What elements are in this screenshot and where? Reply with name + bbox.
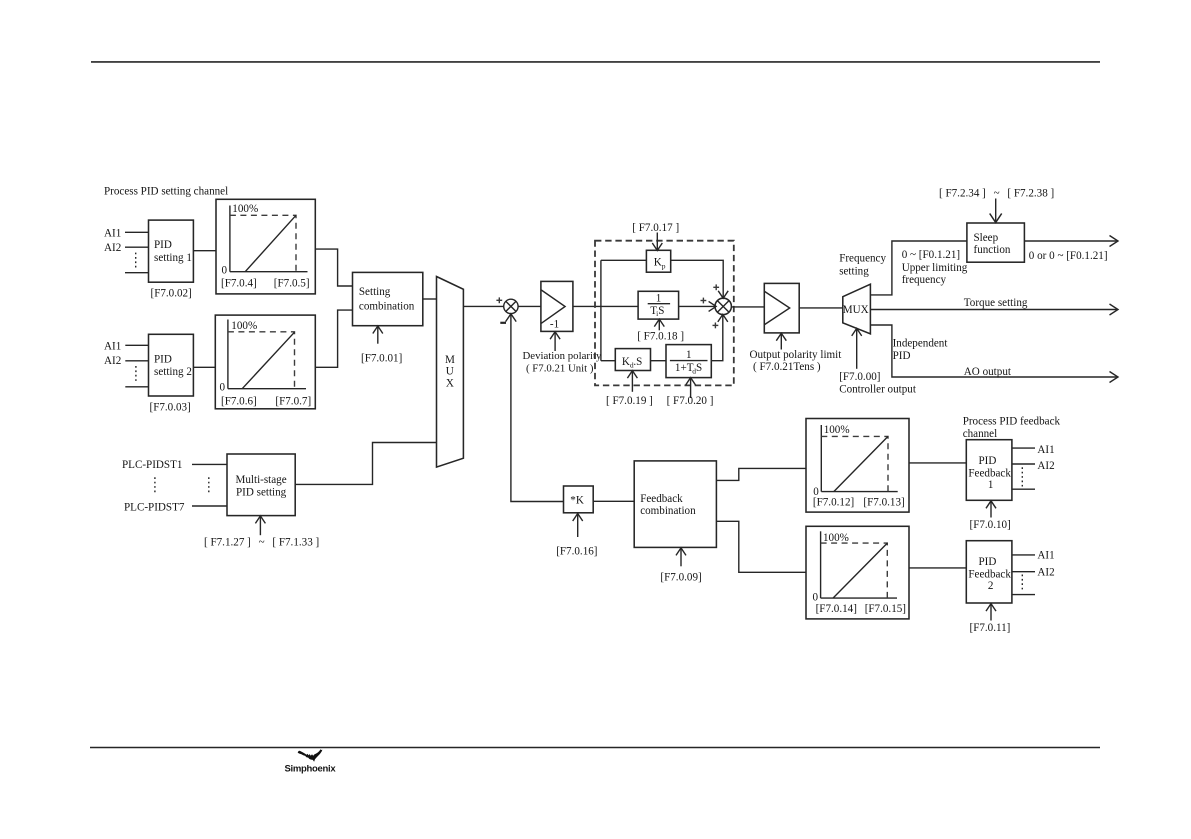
svg-text:[F7.0.6]: [F7.0.6]: [221, 395, 257, 407]
svg-text:U: U: [446, 365, 454, 377]
svg-text:0 ~ [F0.1.21]: 0 ~ [F0.1.21]: [902, 249, 960, 261]
svg-text:Simphoenix: Simphoenix: [285, 764, 337, 775]
wire sleep function output arrow: [1024, 240, 1116, 242]
svg-text:( F7.0.21Tens ): ( F7.0.21Tens ): [753, 361, 821, 373]
svg-text:MUX: MUX: [843, 304, 869, 316]
block integrator 1/TiS: [638, 291, 679, 319]
arrow F7.0.16 into *K: [577, 514, 579, 537]
svg-text:frequency: frequency: [902, 274, 947, 286]
svg-text:S: S: [658, 305, 664, 317]
svg-text:100%: 100%: [824, 424, 850, 436]
block Setting combination: [353, 272, 423, 325]
svg-text:[F7.0.15]: [F7.0.15]: [865, 603, 906, 615]
svg-text:[F7.0.13]: [F7.0.13]: [863, 497, 904, 509]
svg-text:( F7.0.21 Unit ): ( F7.0.21 Unit ): [526, 363, 594, 375]
svg-text:Output polarity limit: Output polarity limit: [750, 349, 843, 361]
wire KdS to TdS: [651, 360, 667, 362]
wire bottom from PID feedback 2: [1012, 594, 1035, 596]
wire setting combination to MUX: [423, 298, 437, 300]
plus sign sum2 top: [713, 286, 719, 288]
svg-text:AI1: AI1: [1037, 550, 1054, 562]
block curve box 3: [806, 419, 909, 513]
svg-text:[F7.0.03]: [F7.0.03]: [150, 402, 191, 414]
svg-text:AI1: AI1: [104, 227, 121, 239]
wire PID setting 2 to curve 2: [193, 366, 215, 368]
block Kp: [646, 250, 670, 272]
block PID setting 1: [149, 220, 194, 282]
svg-text:Upper limiting: Upper limiting: [902, 262, 968, 274]
wire PLC-PIDST1 to multistage: [192, 463, 227, 465]
curve2 x axis: [228, 388, 306, 390]
wire branch to KdS: [601, 360, 615, 362]
summing junction sum1: [504, 299, 518, 313]
dotted ellipsis inputs (setting 2): [135, 366, 137, 382]
mux MUX1: [437, 277, 464, 468]
svg-text:PID: PID: [893, 350, 911, 362]
curve4 x axis: [821, 597, 897, 599]
svg-text:*K: *K: [570, 494, 584, 506]
wire output polarity to MUX2: [799, 307, 843, 309]
wire curve1 to setting combination: [315, 249, 352, 286]
dashed PID regulator box: [595, 241, 734, 386]
svg-text:Controller output: Controller output: [839, 383, 917, 395]
curve4 y axis: [820, 531, 822, 598]
curve2 dashed limit lines: [228, 332, 295, 389]
block curve box 1: [216, 199, 315, 294]
svg-text:2: 2: [988, 580, 994, 592]
wire AI2 from PID feedback 1: [1012, 463, 1035, 465]
arrow F7.0.18 into integrator: [658, 320, 660, 330]
svg-text:channel: channel: [963, 428, 998, 440]
svg-text:setting 1: setting 1: [154, 252, 192, 264]
arrow F7.0.21 tens into output polarity: [780, 334, 782, 350]
svg-text:[ F7.0.17 ]: [ F7.0.17 ]: [632, 222, 679, 234]
curve2 y axis: [227, 320, 229, 389]
curve1 x axis: [230, 271, 308, 273]
wire Kp to sum2 top: [671, 260, 724, 297]
block deviation polarity (-1): [541, 281, 573, 331]
svg-text:[ F7.0.20 ]: [ F7.0.20 ]: [667, 395, 714, 407]
curve4 diagonal: [833, 543, 887, 598]
block output polarity limit: [764, 283, 799, 333]
svg-text:[ F7.2.34 ] ~ [ F7.2.38 ]: [ F7.2.34 ] ~ [ F7.2.38 ]: [939, 187, 1054, 199]
wire bottom input to PID setting 1: [125, 272, 149, 274]
curve1 diagonal: [245, 215, 296, 271]
arrow F7.0.20 into filter: [690, 379, 692, 398]
svg-text:Independent: Independent: [893, 338, 949, 350]
branch vertical wire: [600, 260, 602, 360]
svg-text:[F7.0.16]: [F7.0.16]: [556, 546, 597, 558]
svg-text:PID: PID: [154, 239, 172, 251]
svg-text:Deviation polarity: Deviation polarity: [523, 350, 602, 362]
block filter 1/(1+TdS): [666, 345, 711, 378]
block Multi-stage PID setting: [227, 454, 295, 516]
mux MUX2: [843, 284, 871, 334]
svg-text:[F7.0.09]: [F7.0.09]: [660, 571, 701, 583]
plus sign sum2 left: [701, 300, 707, 302]
curve3 x axis: [821, 491, 897, 493]
svg-text:.S: .S: [633, 356, 642, 368]
wire AI1 from PID feedback 2: [1012, 554, 1035, 556]
wire AI1 to PID setting 1: [125, 231, 149, 233]
block curve box 4: [806, 526, 909, 619]
svg-text:PLC-PIDST7: PLC-PIDST7: [124, 501, 185, 513]
wire deviation polarity to TiS: [573, 305, 638, 307]
dotted ellipsis inputs (setting 1): [135, 253, 137, 270]
wire curve2 to setting combination: [315, 310, 352, 367]
svg-text:1+T: 1+T: [675, 362, 694, 374]
svg-text:PID: PID: [154, 353, 172, 365]
wire AI1 from PID feedback 1: [1012, 447, 1035, 449]
wire PLC-PIDST7 to multistage: [192, 505, 227, 507]
wire bottom input to PID setting 2: [125, 386, 148, 388]
svg-text:Feedback: Feedback: [968, 468, 1011, 480]
curve4 dashed limit lines: [821, 543, 888, 598]
svg-text:[ F7.1.27 ] ~ [ F7.1.33 ]: [ F7.1.27 ] ~ [ F7.1.33 ]: [204, 536, 319, 548]
wire sum2 to output polarity: [731, 306, 764, 308]
wire AI2 from PID feedback 2: [1012, 571, 1035, 573]
svg-text:[F7.0.5]: [F7.0.5]: [274, 277, 310, 289]
block PID feedback 1: [966, 440, 1012, 501]
svg-text:Process PID feedback: Process PID feedback: [963, 415, 1061, 427]
svg-text:[F7.0.00]: [F7.0.00]: [839, 371, 880, 383]
svg-text:PID setting: PID setting: [236, 486, 287, 498]
block curve box 2: [215, 315, 315, 409]
curve3 y axis: [820, 425, 822, 492]
arrow F7.0.01 into setting combination: [377, 327, 379, 344]
svg-text:0: 0: [220, 382, 226, 394]
svg-text:[F7.0.7]: [F7.0.7]: [275, 395, 311, 407]
svg-text:setting 2: setting 2: [154, 366, 192, 378]
svg-text:0 or 0 ~ [F0.1.21]: 0 or 0 ~ [F0.1.21]: [1029, 250, 1108, 262]
svg-text:0: 0: [222, 265, 228, 277]
curve1 y axis: [229, 206, 231, 272]
svg-text:Torque setting: Torque setting: [964, 297, 1028, 309]
svg-text:S: S: [696, 362, 702, 374]
wire AI1 to PID setting 2: [125, 344, 148, 346]
curve3 dashed limit lines: [821, 436, 888, 491]
arrow F7.0.10 into PID feedback 1: [990, 501, 992, 517]
wire branch to Kp: [601, 259, 647, 261]
svg-text:PLC-PIDST1: PLC-PIDST1: [122, 459, 182, 471]
curve2 diagonal: [242, 332, 294, 389]
wire AI2 to PID setting 1: [125, 246, 149, 248]
block sleep function: [967, 223, 1025, 262]
arrow F7.0.21 unit into deviation polarity: [554, 332, 556, 351]
svg-text:AO output: AO output: [964, 366, 1012, 378]
arrow F7.0.00 into MUX2: [856, 330, 858, 369]
svg-text:Setting: Setting: [359, 286, 391, 298]
svg-text:[F7.0.10]: [F7.0.10]: [970, 519, 1011, 531]
svg-text:combination: combination: [640, 505, 696, 517]
svg-text:-1: -1: [550, 318, 559, 330]
arrow F7.0.17 into Kp: [656, 233, 658, 250]
svg-text:Feedback: Feedback: [640, 493, 683, 505]
svg-text:function: function: [974, 244, 1011, 256]
wire MUX2 to sleep function: [870, 241, 967, 295]
block PID setting 2: [149, 334, 194, 396]
svg-text:1: 1: [686, 349, 692, 361]
svg-text:Multi-stage: Multi-stage: [236, 474, 287, 486]
block feedback combination: [634, 461, 716, 548]
svg-text:PID: PID: [979, 455, 997, 467]
svg-text:combination: combination: [359, 301, 415, 313]
bottom rule: [90, 747, 1100, 749]
wire MUX1 to sum1: [463, 305, 503, 307]
plus sign sum1: [496, 299, 502, 301]
svg-text:AI1: AI1: [1037, 444, 1054, 456]
svg-text:100%: 100%: [232, 203, 258, 215]
wire PID setting 1 to curve 1: [193, 250, 216, 252]
wire multistage to MUX: [295, 443, 436, 485]
svg-text:Sleep: Sleep: [974, 232, 999, 244]
top rule: [91, 61, 1100, 63]
svg-text:K: K: [654, 256, 662, 268]
wire curve4 to PID feedback 2: [909, 567, 966, 569]
svg-text:[F7.0.11]: [F7.0.11]: [970, 622, 1011, 634]
svg-text:setting: setting: [839, 265, 869, 277]
feedback wire into sum1: [511, 314, 564, 501]
wire feedback combination to curve 3: [716, 468, 806, 480]
svg-text:AI2: AI2: [1037, 460, 1054, 472]
logo bird: [298, 749, 323, 762]
wire feedback combination to curve 4: [716, 521, 806, 572]
svg-text:[ F7.0.18 ]: [ F7.0.18 ]: [637, 331, 684, 343]
svg-text:M: M: [445, 354, 455, 366]
svg-text:1: 1: [656, 293, 662, 305]
svg-text:Process PID setting channel: Process PID setting channel: [104, 186, 228, 198]
wire *K to feedback combination: [593, 500, 634, 502]
arrow F7.0.11 into PID feedback 2: [990, 604, 992, 621]
arrow F7.2.34 into sleep function: [995, 199, 997, 222]
svg-text:[F7.0.12]: [F7.0.12]: [813, 497, 854, 509]
svg-text:[F7.0.01]: [F7.0.01]: [361, 352, 402, 364]
svg-text:1: 1: [988, 479, 994, 491]
svg-text:Frequency: Frequency: [839, 253, 886, 265]
svg-text:AI2: AI2: [104, 242, 121, 254]
summing junction sum2: [715, 298, 731, 314]
curve1 dashed limit lines: [230, 215, 296, 271]
wire torque setting output arrow: [870, 309, 1116, 311]
svg-text:0: 0: [813, 591, 819, 603]
wire TdS to sum2 bottom: [711, 316, 723, 361]
svg-text:[F7.0.4]: [F7.0.4]: [221, 277, 257, 289]
svg-text:AI1: AI1: [104, 341, 121, 353]
wire TiS to sum2: [679, 305, 715, 307]
minus sign sum1: [500, 322, 506, 324]
svg-text:X: X: [446, 377, 454, 389]
wire MUX2 to AO output arrow: [870, 325, 1116, 377]
svg-text:Feedback: Feedback: [968, 569, 1011, 581]
wire bottom from PID feedback 1: [1012, 488, 1035, 490]
plus sign sum2 bottom: [713, 324, 719, 326]
svg-text:[ F7.0.19 ]: [ F7.0.19 ]: [606, 395, 653, 407]
arrow F7.1.27 into multistage: [259, 516, 261, 535]
svg-text:AI2: AI2: [104, 355, 121, 367]
arrow F7.0.09 into feedback combination: [680, 548, 682, 566]
wire AI2 to PID setting 2: [125, 360, 148, 362]
dotted ellipsis feedback 1: [1021, 467, 1023, 486]
arrow F7.0.19 into KdS: [631, 372, 633, 392]
block *K: [564, 486, 594, 513]
svg-text:p: p: [662, 261, 666, 270]
block derivative KdS: [615, 349, 650, 371]
curve3 diagonal: [834, 436, 888, 491]
svg-text:[F7.0.02]: [F7.0.02]: [151, 287, 192, 299]
svg-text:K: K: [622, 356, 630, 368]
dotted ellipsis feedback 2: [1021, 575, 1023, 593]
svg-text:AI2: AI2: [1037, 567, 1054, 579]
block PID feedback 2: [966, 541, 1012, 603]
svg-text:[F7.0.14]: [F7.0.14]: [816, 603, 857, 615]
wire curve3 to PID feedback 1: [909, 462, 966, 464]
wire sum1 to deviation polarity: [518, 305, 541, 307]
dotted ellipsis multistage inputs: [208, 477, 210, 493]
svg-text:100%: 100%: [231, 320, 257, 332]
dotted ellipsis PLC list: [154, 477, 156, 493]
svg-text:PID: PID: [979, 556, 997, 568]
